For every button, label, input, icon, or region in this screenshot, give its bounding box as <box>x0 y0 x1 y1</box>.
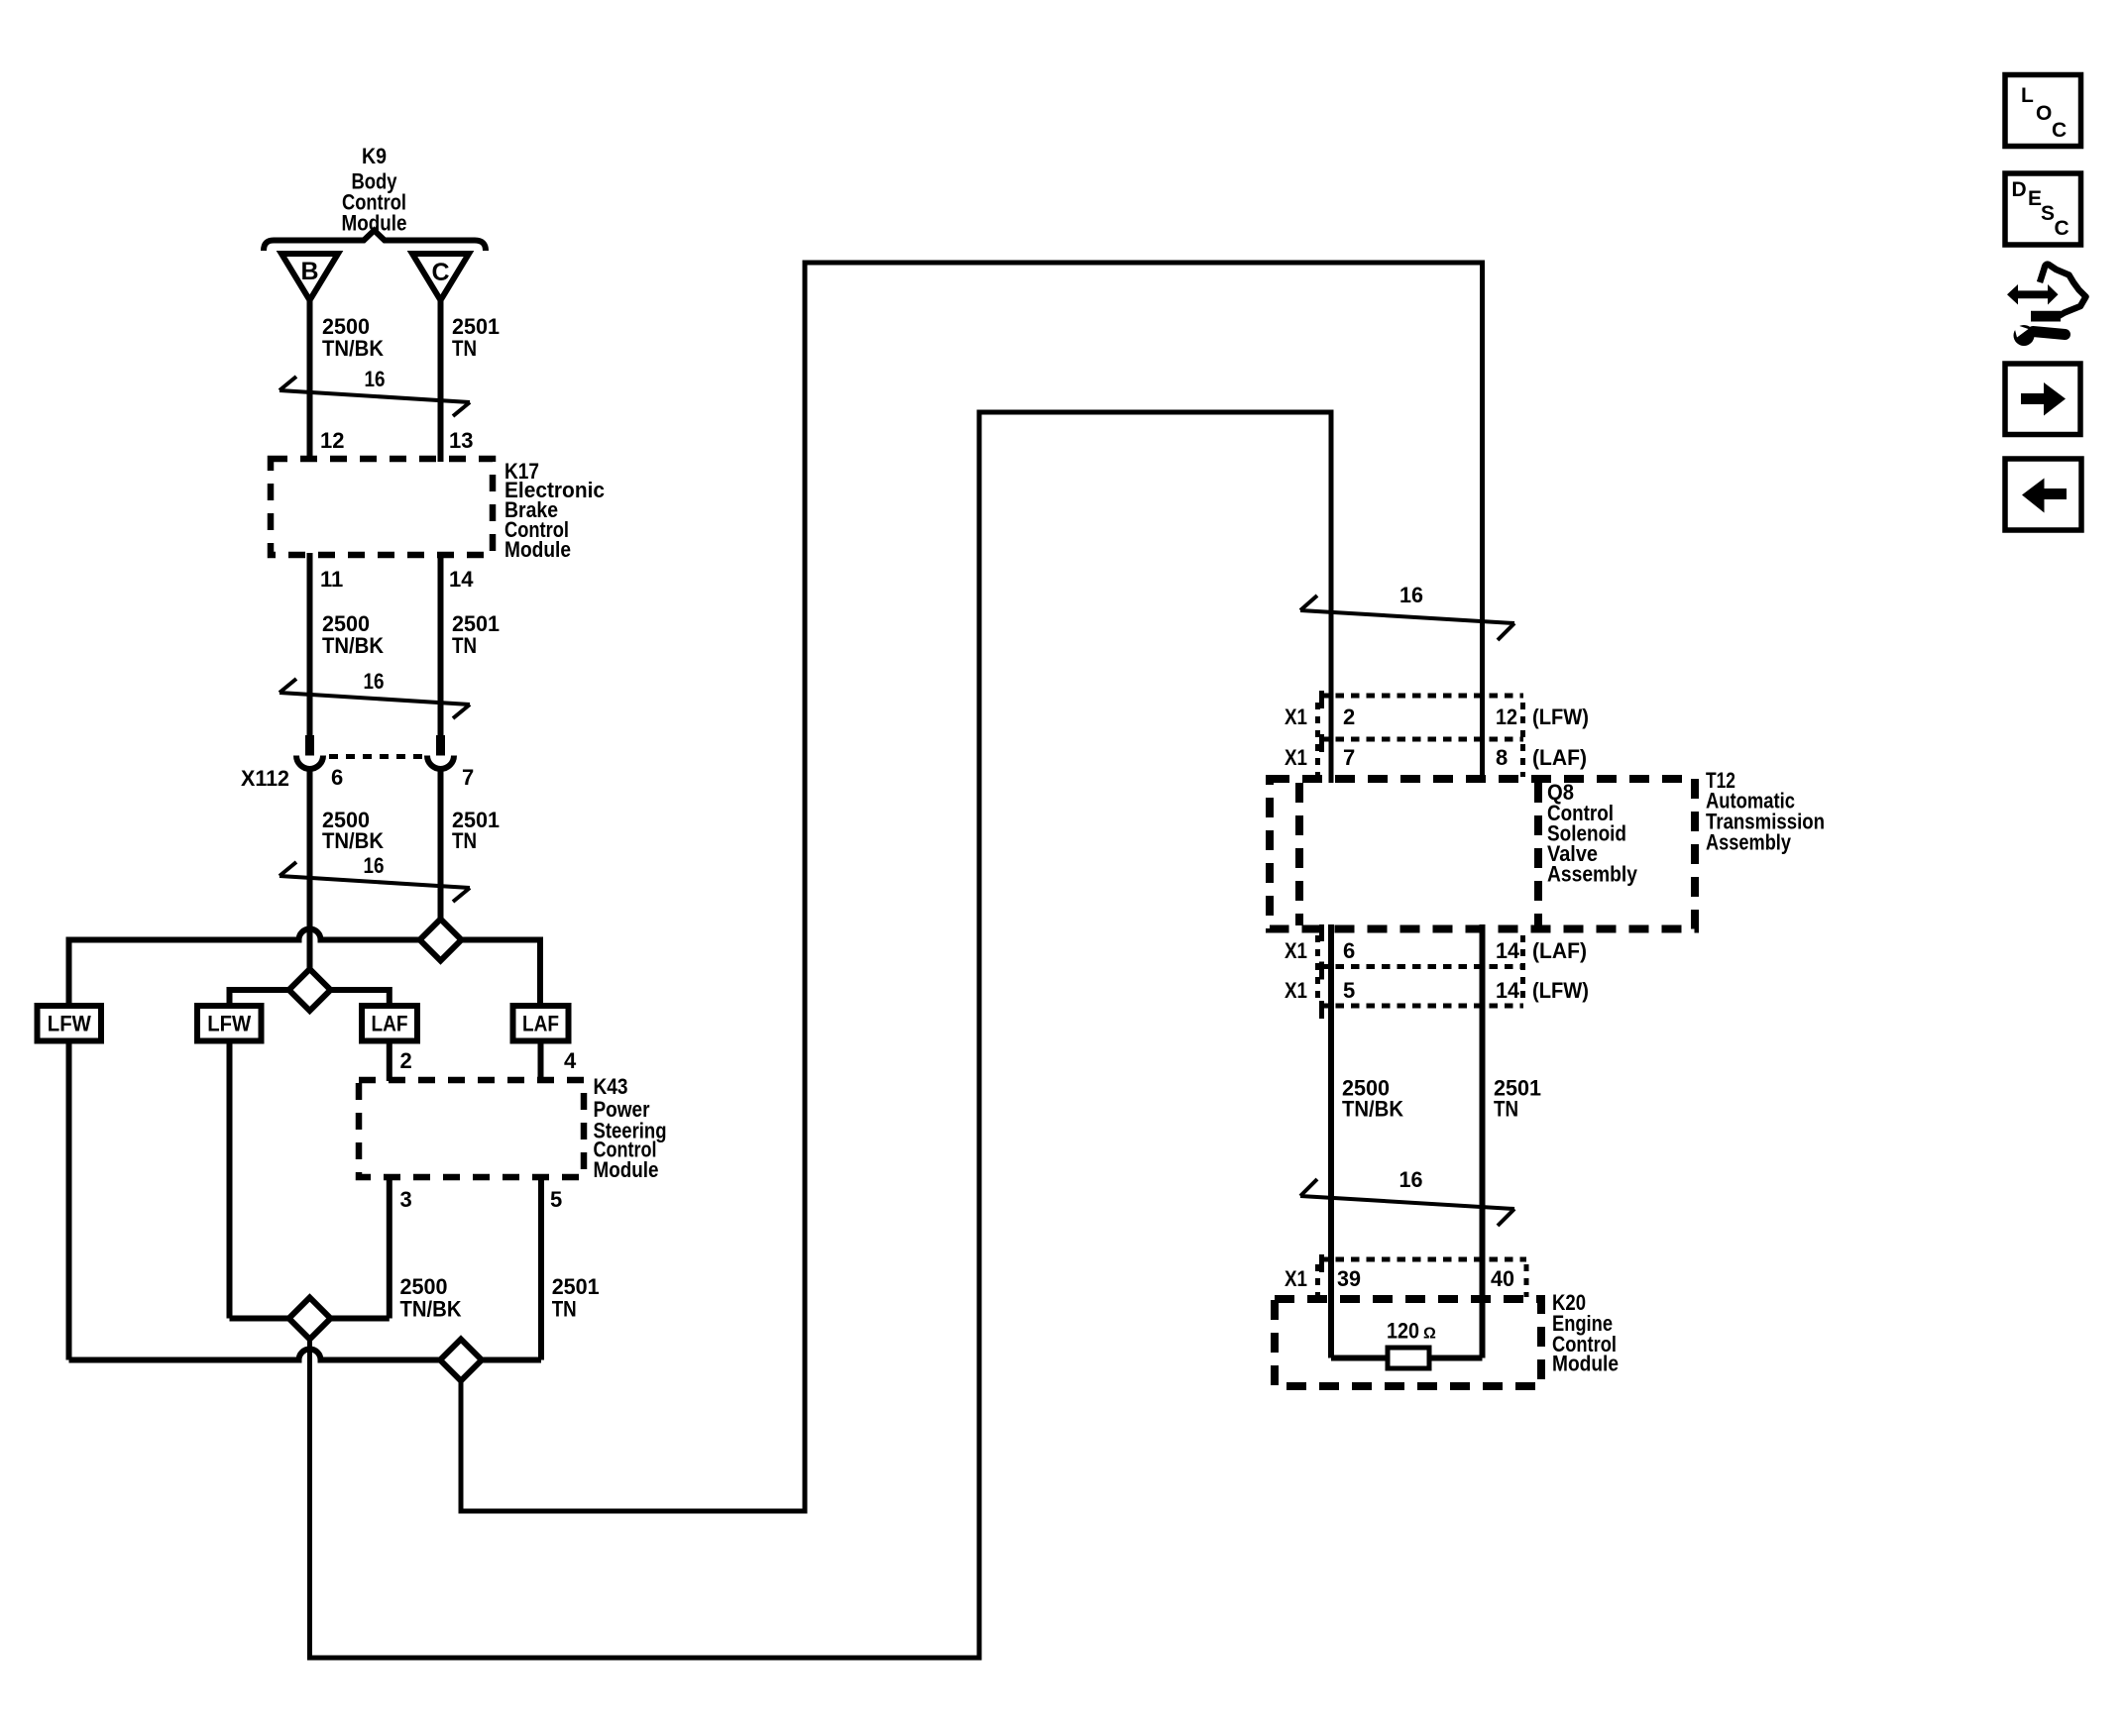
gauge slash 16 (second left) <box>280 669 470 718</box>
svg-text:TN/BK: TN/BK <box>400 1297 462 1322</box>
svg-text:39: 39 <box>1337 1266 1361 1291</box>
svg-text:Ω: Ω <box>1423 1326 1436 1343</box>
tick row1 <box>1319 691 1324 708</box>
svg-text:TN/BK: TN/BK <box>1342 1097 1403 1122</box>
svg-text:Module: Module <box>594 1157 659 1182</box>
svg-text:11: 11 <box>320 567 343 592</box>
icon LOC box <box>2005 75 2081 147</box>
svg-text:Assembly: Assembly <box>1706 830 1792 855</box>
tick row3 divider <box>1319 962 1324 980</box>
label wire 2501 TN <box>452 314 500 361</box>
module K9 Body Control Module label <box>342 144 407 236</box>
svg-text:X1: X1 <box>1285 978 1307 1003</box>
wire junction run to LFW (left) and LAF (right) with hop over 2500 <box>69 929 541 1008</box>
connector X112 male pin 7 <box>436 735 445 756</box>
wire 2501 TN from K17 pin 14 to X112 <box>438 553 444 736</box>
wire junction run to LFW2 and LAF1 <box>230 990 390 1007</box>
svg-text:8: 8 <box>1496 745 1508 770</box>
label 120 ohm <box>1387 1319 1436 1344</box>
node LAF (second) <box>513 1006 569 1041</box>
svg-text:LFW: LFW <box>207 1012 251 1036</box>
svg-text:16: 16 <box>364 669 385 694</box>
connector row divider pin6-14 / pin5-14 <box>1320 964 1523 969</box>
svg-text:TN: TN <box>552 1297 577 1322</box>
wire from LAF2 to K43 pin 4 <box>538 1041 544 1082</box>
wire 2500 TN/BK from B to K17 pin 12 <box>307 300 313 462</box>
svg-text:TN: TN <box>452 828 477 853</box>
svg-text:LAF: LAF <box>522 1012 559 1036</box>
wire 2501 TN from T12 to ECM <box>1480 924 1486 1358</box>
connector X112 female 7 <box>427 756 454 770</box>
label wire 2501 TN (right) <box>1494 1076 1541 1122</box>
splice diamond on wire 2501 <box>420 920 462 961</box>
svg-text:16: 16 <box>1399 1167 1423 1192</box>
wire 2500 TN/BK from K43 pin 3 <box>387 1176 392 1319</box>
svg-text:D: D <box>2012 178 2027 201</box>
wire from LAF1 to K43 pin 2 <box>387 1041 392 1082</box>
svg-text:Assembly: Assembly <box>1547 862 1638 887</box>
Q8 solenoid valve assembly inner box left edge <box>1295 783 1303 925</box>
svg-text:40: 40 <box>1491 1266 1514 1291</box>
gauge slash 16 (third left) <box>280 853 470 902</box>
tick row3 top <box>1319 924 1324 941</box>
icon back arrow box <box>2005 459 2081 530</box>
junction run LFW1 to K43 pin5 wire with hop over 2500 <box>69 1350 542 1360</box>
svg-text:2: 2 <box>1343 705 1355 729</box>
brace for K9 module <box>264 231 486 252</box>
svg-text:TN: TN <box>1494 1097 1518 1122</box>
connector rows 1-2 left dashed edge <box>1315 703 1320 777</box>
svg-text:12: 12 <box>1496 705 1517 729</box>
svg-text:TN/BK: TN/BK <box>322 336 384 361</box>
svg-text:16: 16 <box>365 367 386 391</box>
node LFW (far left) <box>38 1006 102 1041</box>
wire from LFW2 down to junction row 3 <box>227 1041 233 1319</box>
icon DESC box <box>2005 173 2081 245</box>
svg-text:K9: K9 <box>362 144 387 168</box>
svg-text:16: 16 <box>364 853 385 878</box>
svg-text:5: 5 <box>1343 978 1355 1003</box>
svg-text:(LAF): (LAF) <box>1532 745 1587 770</box>
connector row divider pin7/8 <box>1320 737 1523 742</box>
terminal B <box>281 254 338 300</box>
svg-text:C: C <box>431 259 449 286</box>
svg-text:O: O <box>2036 102 2052 125</box>
node LAF (first) <box>362 1006 417 1041</box>
svg-text:2501: 2501 <box>552 1274 600 1299</box>
splice diamond on wire 2501 (row 4) <box>440 1340 482 1381</box>
wire 2501 TN from C to K17 pin 13 <box>438 300 444 462</box>
gauge slash 16 (top left) <box>280 367 470 416</box>
connector rows 3-4 left dashed edge <box>1315 935 1320 1004</box>
splice diamond on wire 2500 (row 3) <box>289 1298 331 1340</box>
module T12 Automatic Transmission Assembly box <box>1270 779 1695 929</box>
connector row X1 pin2/12 top line <box>1320 694 1523 699</box>
wire 2500 TN/BK from X112-6 down <box>307 769 313 971</box>
wire 2501 TN from X112-7 down <box>438 769 444 922</box>
label K20 Engine Control Module <box>1552 1290 1619 1376</box>
svg-text:X1: X1 <box>1285 705 1307 729</box>
label wire 2500 TN/BK <box>322 808 384 853</box>
svg-text:120: 120 <box>1387 1319 1419 1344</box>
svg-text:7: 7 <box>1343 745 1355 770</box>
svg-text:TN: TN <box>452 336 477 361</box>
svg-text:6: 6 <box>331 765 343 790</box>
svg-text:TN: TN <box>452 633 477 658</box>
terminal C <box>412 254 469 300</box>
wire 2501 TN long run to outer loop <box>461 263 1483 1511</box>
Q8 solenoid valve assembly inner box right edge <box>1534 783 1542 925</box>
label wire 2501 TN <box>452 808 500 853</box>
svg-text:C: C <box>2055 217 2069 240</box>
svg-text:5: 5 <box>550 1187 562 1212</box>
label wire 2500 TN/BK <box>322 611 384 658</box>
connector row5 left dashed edge <box>1315 1264 1320 1297</box>
label wire 2501 TN <box>452 611 500 658</box>
module K43 Power Steering Control Module <box>359 1074 667 1182</box>
svg-text:Module: Module <box>1552 1352 1619 1376</box>
svg-text:K43: K43 <box>594 1074 628 1099</box>
svg-text:14: 14 <box>449 567 474 592</box>
connector row bottom line <box>1320 1004 1523 1009</box>
module K17 Electronic Brake Control Module <box>271 459 605 562</box>
svg-text:4: 4 <box>564 1048 577 1073</box>
wire 2501 TN from K43 pin 5 <box>538 1176 544 1360</box>
svg-text:E: E <box>2028 187 2042 210</box>
connector X112 male pin 6 <box>305 735 314 756</box>
tick row5 <box>1319 1254 1324 1272</box>
svg-text:L: L <box>2021 84 2034 107</box>
node LFW (second) <box>197 1006 262 1041</box>
wire from LFW1 down to lower junction <box>66 1041 72 1360</box>
gauge slash 16 (right top) <box>1300 583 1514 640</box>
tick row2 <box>1319 734 1324 752</box>
label wire 2500 TN/BK <box>400 1274 462 1322</box>
svg-text:X1: X1 <box>1285 745 1307 770</box>
svg-text:X1: X1 <box>1285 1266 1307 1291</box>
svg-text:TN/BK: TN/BK <box>322 828 384 853</box>
svg-text:B: B <box>300 258 318 285</box>
svg-text:14: 14 <box>1496 938 1520 963</box>
svg-text:Module: Module <box>504 537 571 562</box>
svg-text:14: 14 <box>1496 978 1520 1003</box>
connector rows 1-2 right dashed edge <box>1520 703 1525 777</box>
svg-text:16: 16 <box>1399 583 1423 607</box>
junction run LFW2 to K43 pin3 wire <box>230 1316 390 1322</box>
wire 2500 TN/BK from T12 to ECM <box>1328 924 1334 1358</box>
svg-text:LAF: LAF <box>372 1012 408 1036</box>
label Q8 Control Solenoid Valve Assembly <box>1547 780 1638 887</box>
gauge slash 16 (right bottom) <box>1300 1167 1514 1226</box>
tick row4 bottom <box>1319 1001 1324 1019</box>
svg-text:S: S <box>2041 202 2055 225</box>
svg-text:LFW: LFW <box>48 1012 91 1036</box>
wire 2500 TN/BK long run to inner loop <box>310 412 1332 1658</box>
connector X112 female 6 <box>296 756 323 770</box>
connector row X1 pin39/40 top line <box>1320 1257 1526 1262</box>
label wire 2500 TN/BK <box>322 314 384 361</box>
svg-text:13: 13 <box>449 428 473 453</box>
label wire 2501 TN <box>552 1274 600 1322</box>
svg-text:X1: X1 <box>1285 938 1307 963</box>
svg-text:(LAF): (LAF) <box>1532 938 1587 963</box>
svg-text:3: 3 <box>400 1187 412 1212</box>
svg-text:X112: X112 <box>241 766 289 791</box>
svg-text:6: 6 <box>1343 938 1355 963</box>
icon forward arrow box <box>2005 364 2080 435</box>
module K20 Engine Control Module box <box>1275 1299 1541 1386</box>
svg-text:2500: 2500 <box>400 1274 448 1299</box>
connector rows 3-4 right dashed edge <box>1520 935 1525 1004</box>
label wire 2500 TN/BK (right) <box>1342 1076 1403 1122</box>
icon harness routing (double arrow, outline, wrench) <box>2007 265 2086 346</box>
wire 2500 TN/BK from K17 pin 11 to X112 <box>307 553 313 736</box>
svg-text:(LFW): (LFW) <box>1532 978 1589 1003</box>
connector X112 dashed link <box>329 754 424 759</box>
terminating resistor 120 ohm <box>1331 1348 1483 1368</box>
svg-text:(LFW): (LFW) <box>1532 705 1589 729</box>
svg-text:TN/BK: TN/BK <box>322 633 384 658</box>
splice diamond on wire 2500 <box>289 969 331 1011</box>
svg-text:12: 12 <box>320 428 344 453</box>
svg-text:C: C <box>2052 119 2067 142</box>
svg-text:2: 2 <box>400 1048 412 1073</box>
label T12 Automatic Transmission Assembly <box>1706 768 1825 855</box>
svg-text:7: 7 <box>462 765 474 790</box>
connector row5 right dashed edge <box>1524 1264 1529 1297</box>
